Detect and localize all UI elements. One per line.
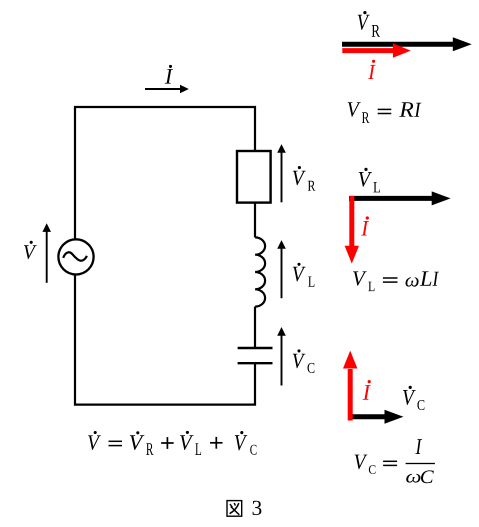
phasor I red arrow (leads V_C by 90 deg): [343, 351, 357, 421]
equation V_R = RI: [348, 102, 422, 123]
label V-dot R (phasor 1): [358, 11, 380, 37]
phasor V_R black arrow: [342, 37, 472, 51]
label I-dot (top current): [165, 65, 173, 84]
phasor V_L black arrow: [349, 191, 451, 205]
resistor R: [237, 151, 271, 203]
current arrow I (top): [145, 85, 189, 94]
caption: figure number 3: [253, 501, 262, 515]
phasor V_C black arrow: [350, 410, 404, 424]
equation V_L = omega L I: [353, 271, 439, 291]
equation V-dot = V-dot R + V-dot L + V-dot C: [88, 431, 256, 455]
caption: figure kanji zu: [227, 501, 242, 517]
AC source: [58, 239, 93, 274]
phasor I red arrow (lags V_L by 90 deg): [345, 196, 359, 264]
label I-dot red (phasor 3): [363, 380, 371, 400]
equation V_C = I over omega C: [355, 439, 435, 483]
voltage arrow V_R: [277, 144, 286, 202]
voltage arrow V (left of source): [42, 223, 51, 283]
label V-dot C (phasor 3): [403, 386, 424, 410]
label V-dot L (phasor 2): [359, 168, 380, 193]
label V-dot L (inductor voltage): [293, 263, 315, 287]
wire: left-upper, top run, right-upper into resistor: [75, 107, 255, 239]
label V-dot (source voltage): [24, 241, 37, 259]
capacitor C bottom plate: [238, 362, 273, 364]
voltage arrow V_C: [277, 327, 286, 386]
label I-dot red (phasor 1): [368, 60, 375, 79]
wire: capacitor to bottom run back to left side: [75, 273, 255, 405]
label V-dot C (capacitor voltage): [293, 349, 315, 373]
voltage arrow V_L: [277, 240, 286, 298]
AC source sine wave: [63, 252, 87, 260]
wire: inductor to capacitor: [254, 307, 256, 348]
inductor L: [255, 237, 265, 306]
label I-dot red (phasor 2): [361, 216, 369, 235]
capacitor C top plate: [238, 347, 273, 349]
label V-dot R (resistor voltage): [293, 166, 316, 191]
wire: resistor to inductor: [254, 203, 256, 238]
phasor I red arrow (in phase with V_R): [342, 43, 411, 57]
